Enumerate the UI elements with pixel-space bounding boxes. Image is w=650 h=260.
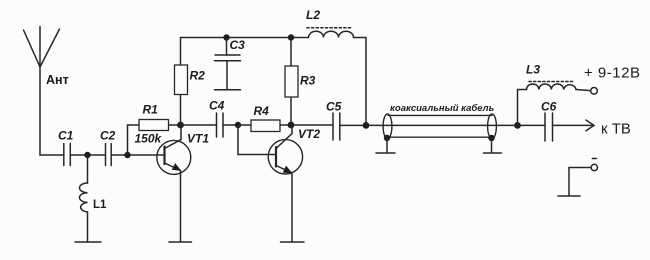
svg-text:+ 9-12В: + 9-12В	[584, 65, 640, 82]
svg-text:L1: L1	[93, 199, 107, 211]
svg-text:C2: C2	[100, 129, 116, 143]
wire base node up to R1	[128, 125, 140, 155]
wire minus to ground	[569, 168, 591, 196]
node B collector VT2	[288, 122, 295, 129]
svg-text:R1: R1	[143, 103, 159, 117]
svg-text:L3: L3	[526, 63, 540, 77]
node A collector VT1	[177, 122, 184, 129]
node cable left shield	[384, 135, 390, 141]
svg-text:C4: C4	[209, 99, 225, 113]
resistor R1	[135, 103, 181, 146]
ground VT1 emitter	[169, 241, 192, 243]
svg-text:коаксиальный кабель: коаксиальный кабель	[390, 103, 495, 114]
arrow to TV	[586, 120, 631, 138]
transistor VT2	[268, 125, 320, 242]
svg-text:C6: C6	[541, 99, 557, 113]
node L1 junction	[84, 152, 90, 158]
ground minus	[558, 195, 580, 197]
svg-text:150k: 150k	[135, 132, 163, 146]
wire node C to cable	[366, 124, 518, 126]
svg-text:VT2: VT2	[298, 127, 320, 141]
svg-text:C5: C5	[326, 99, 342, 113]
svg-text:R2: R2	[190, 69, 206, 83]
ground cable left	[376, 138, 395, 153]
node cable right shield	[488, 135, 494, 141]
coaxial cable	[383, 103, 496, 139]
capacitor C3	[215, 38, 246, 90]
capacitor C6	[518, 99, 593, 141]
svg-text:L2: L2	[306, 8, 320, 22]
antenna	[24, 27, 69, 156]
capacitor C2	[100, 129, 116, 166]
wire C2 to VT1 base	[111, 154, 164, 156]
inductor L2	[306, 8, 354, 38]
terminal minus	[591, 159, 597, 171]
node R3 top	[288, 34, 294, 40]
svg-text:C3: C3	[230, 38, 246, 52]
wire node A to C4	[181, 124, 217, 126]
ground L1	[75, 241, 101, 243]
node base VT1	[124, 152, 130, 158]
capacitor C5	[326, 99, 366, 140]
wire L2 to right corner	[354, 38, 367, 126]
ground VT2 emitter	[281, 241, 305, 243]
node C3 top	[223, 34, 229, 40]
wire C1 to C2	[70, 154, 105, 156]
wire input row	[40, 154, 63, 156]
resistor R3	[285, 38, 316, 126]
svg-text:VT1: VT1	[187, 132, 209, 146]
resistor R2	[175, 38, 206, 126]
svg-text:к ТВ: к ТВ	[601, 121, 631, 138]
svg-text:C1: C1	[58, 129, 74, 143]
transistor VT1	[157, 125, 210, 242]
wire node B to C5	[291, 124, 333, 126]
node C rail/C5/cable	[363, 122, 370, 129]
terminal +9-12V	[584, 65, 640, 95]
node E cable/L3/C6	[514, 122, 521, 129]
inductor L1	[80, 155, 108, 242]
capacitor C1	[58, 129, 74, 166]
wire node D to VT2 base	[238, 125, 276, 155]
top rail wire	[181, 37, 309, 39]
ground cable right	[484, 138, 502, 153]
resistor R4	[238, 104, 291, 132]
node D base VT2	[235, 122, 241, 128]
svg-text:Ант: Ант	[46, 73, 69, 87]
ground C3	[215, 89, 241, 91]
svg-text:R4: R4	[254, 104, 270, 118]
svg-text:R3: R3	[300, 74, 316, 88]
inductor L3	[518, 63, 591, 126]
capacitor C4	[209, 99, 238, 137]
